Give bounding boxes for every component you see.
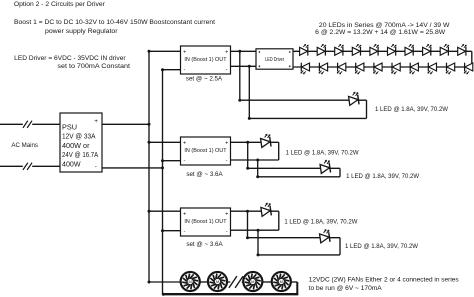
svg-text:-: -	[184, 67, 186, 73]
svg-text:-: -	[226, 158, 228, 164]
svg-text:LED Driver: LED Driver	[265, 57, 284, 63]
junction: tap on boost3 + output	[246, 210, 249, 213]
wire: fan3-fan4 link	[262, 281, 272, 283]
LED string row 2: D11-D20 (10 LEDs)	[301, 63, 473, 74]
wire: LED B return	[258, 176, 340, 178]
junction: tap on boost1 + output	[238, 50, 241, 53]
junction: 0V bus / boost1 - input	[161, 68, 164, 71]
wire: fan feed from +V bus	[149, 281, 181, 283]
junction: LED D return on - tap	[257, 253, 260, 256]
boost converter U1 IN (Boost 1) OUT	[181, 46, 231, 74]
svg-text:1 LED @ 1.8A, 39V, 70.2W: 1 LED @ 1.8A, 39V, 70.2W	[345, 243, 419, 250]
wire: LED string wrap (right edge)	[471, 51, 473, 67]
LED driver module	[256, 49, 293, 69]
junction: +V bus / fan feed wire	[148, 281, 151, 284]
junction: +V bus / boost2 + input	[148, 141, 151, 144]
svg-text:AC Mains: AC Mains	[11, 142, 38, 149]
wire: fan4 to corner	[291, 281, 297, 283]
wire: boost3 - output / LED C return	[231, 229, 279, 231]
LED D23 (boost2 circuit B)	[320, 160, 331, 174]
junction: corner circuit D feed	[246, 236, 249, 239]
svg-text:power supply Regulator: power supply Regulator	[45, 28, 118, 35]
svg-text:Boost 1 = DC to DC 10-32V to 1: Boost 1 = DC to DC 10-32V to 10-46V 150W…	[14, 19, 215, 26]
svg-text:set @ ~ 3.6A: set @ ~ 3.6A	[186, 241, 223, 248]
wire: AC mains neutral (bottom)	[0, 165, 60, 167]
fan M3 12VDC 2W	[243, 272, 262, 291]
svg-text:1 LED @ 1.8A, 39V, 70.2W: 1 LED @ 1.8A, 39V, 70.2W	[284, 219, 358, 226]
junction: spare LED1 return on - tap	[248, 117, 251, 120]
svg-text:IN (Boost 1) OUT: IN (Boost 1) OUT	[184, 148, 227, 154]
wire: LED string row 1	[293, 50, 472, 52]
wire: boost3 - tap vertical	[257, 230, 259, 255]
svg-text:+: +	[225, 212, 228, 218]
break: fan wire //	[230, 280, 241, 283]
wire: LED string row 2 return	[293, 66, 472, 68]
svg-text:Option 2 - 2 Circuits per Driv: Option 2 - 2 Circuits per Driver	[14, 1, 106, 8]
svg-text:-: -	[184, 229, 186, 235]
svg-text:set to 700mA Constant: set to 700mA Constant	[57, 63, 130, 70]
svg-text:set @ ~ 3.6A: set @ ~ 3.6A	[186, 171, 223, 178]
wire: boost3 + input	[149, 210, 181, 212]
svg-text:12VDC (2W) FANs Either 2 or 4: 12VDC (2W) FANs Either 2 or 4 connected …	[309, 277, 460, 284]
wire: fan2-fan3 link	[227, 281, 243, 283]
svg-text:PSU: PSU	[62, 122, 77, 131]
svg-text:+: +	[183, 212, 186, 218]
svg-text:400W or: 400W or	[62, 141, 90, 150]
svg-text:12V @ 33A: 12V @ 33A	[62, 132, 96, 141]
wire: boost1 + output to LED driver	[231, 50, 257, 52]
svg-text:+: +	[183, 50, 186, 56]
LED D21 spare (boost1)	[348, 92, 359, 106]
fan M4 12VDC 2W	[272, 272, 291, 291]
svg-text:-: -	[226, 229, 228, 235]
svg-text:LED Driver = 6VDC - 35VDC IN d: LED Driver = 6VDC - 35VDC IN driver	[14, 55, 126, 62]
wire: fan return drop	[296, 282, 298, 294]
junction: tap on boost1 - output	[248, 65, 251, 68]
LED D25 (boost3 circuit D)	[319, 229, 330, 243]
junction: +V bus / boost1 + input	[148, 50, 151, 53]
svg-text:IN (Boost 1) OUT: IN (Boost 1) OUT	[184, 219, 227, 225]
svg-text:+: +	[183, 141, 186, 147]
junction: 0V bus / boost3 - input	[161, 229, 164, 232]
PSU power supply unit	[60, 113, 102, 172]
wire: PSU + output	[102, 123, 149, 125]
wire: boost2 + tap vertical	[247, 142, 249, 168]
svg-text:+: +	[225, 141, 228, 147]
svg-text:1 LED @ 1.8A, 39V, 70.2W: 1 LED @ 1.8A, 39V, 70.2W	[286, 149, 360, 156]
wire: LED D cathode drop	[339, 238, 341, 255]
svg-text:1 LED @ 1.8A, 39V, 70.2W: 1 LED @ 1.8A, 39V, 70.2W	[346, 173, 420, 180]
svg-text:+: +	[94, 118, 98, 125]
wire: boost1 out + tap vertical	[239, 51, 241, 100]
svg-text:1 LED @ 1.8A, 39V, 70.2W: 1 LED @ 1.8A, 39V, 70.2W	[375, 106, 449, 113]
svg-text:+: +	[225, 50, 228, 56]
svg-text:to be run @ 6V ~ 170mA: to be run @ 6V ~ 170mA	[309, 285, 383, 292]
wire: fan return bottom	[163, 293, 298, 295]
wire: boost1 out - tap vertical	[248, 66, 250, 118]
wire: boost2 - output / LED A return	[231, 159, 279, 161]
junction: +V bus / PSU + output	[148, 123, 151, 126]
junction: corner circuit B feed	[246, 167, 249, 170]
wire: spare LED1 cathode drop	[366, 100, 368, 118]
wire: spare LED1 return	[249, 117, 366, 119]
wire: boost2 + input	[149, 141, 181, 143]
svg-text:-: -	[95, 163, 97, 170]
wire: spare LED1 anode feed	[240, 99, 367, 101]
junction: LED B return on - tap	[256, 175, 259, 178]
break: AC top wire //	[23, 123, 32, 126]
svg-text:-: -	[226, 67, 228, 73]
wire: boost1 + input	[149, 50, 181, 52]
LED D22 (boost2 circuit A)	[260, 134, 271, 148]
junction: +V bus / boost3 + input	[148, 210, 151, 213]
wire: boost3 + tap vertical	[247, 211, 249, 238]
wire: LED D return	[258, 254, 340, 256]
wire: LED B anode feed	[248, 167, 340, 169]
wire: LED B cathode drop	[339, 168, 341, 177]
svg-text:-: -	[184, 158, 186, 164]
break: AC bottom wire //	[23, 165, 32, 168]
boost converter U2 IN (Boost 1) OUT	[181, 137, 231, 165]
wire: boost2 - input	[163, 160, 181, 162]
LED D24 (boost3 circuit C)	[260, 203, 271, 217]
junction: tap on boost2 + output	[246, 141, 249, 144]
fan M2 12VDC 2W	[208, 272, 227, 291]
fan M1 12VDC 2W	[181, 272, 200, 291]
wire: boost3 - input	[163, 230, 181, 232]
wire: boost2 - tap vertical	[257, 160, 259, 177]
svg-text:24V @ 16.7A: 24V @ 16.7A	[62, 150, 98, 159]
junction: 0V bus / PSU - output	[161, 166, 164, 169]
svg-text:400W: 400W	[62, 159, 81, 168]
junction: 0V bus / fan return corner	[162, 293, 165, 296]
wire: +V bus vertical from PSU	[148, 51, 150, 282]
LED string row 1: D1-D10 (10 LEDs)	[300, 45, 467, 56]
junction: 0V bus / boost2 - input	[161, 159, 164, 162]
wire: AC mains line (top)	[0, 123, 60, 125]
svg-text:6 @ 2.2W = 13.2W + 14 @ 1.61W: 6 @ 2.2W = 13.2W + 14 @ 1.61W = 25.8W	[315, 29, 446, 36]
wire: 0V bus vertical from PSU	[162, 70, 164, 295]
wire: LED C cathode drop	[278, 211, 280, 230]
svg-text:set @ ~ 2.5A: set @ ~ 2.5A	[186, 75, 223, 82]
wire: boost1 - output to LED driver	[231, 65, 257, 67]
junction: tap on boost2 - output	[256, 159, 259, 162]
wire: boost3 + output (LED C anode)	[231, 210, 279, 212]
junction: tap on boost3 - output	[257, 229, 260, 232]
boost converter U3 IN (Boost 1) OUT	[181, 208, 231, 236]
wire: LED A cathode drop	[278, 142, 280, 160]
svg-text:IN (Boost 1) OUT: IN (Boost 1) OUT	[184, 57, 227, 63]
wire: fan1-fan2 link	[200, 281, 208, 283]
wire: PSU - output	[102, 167, 163, 169]
wire: boost2 + output (LED A anode)	[231, 141, 279, 143]
wire: LED D anode feed	[248, 237, 341, 239]
junction: corner spare LED1 feed	[238, 99, 241, 102]
wire: boost1 - input	[163, 69, 181, 71]
